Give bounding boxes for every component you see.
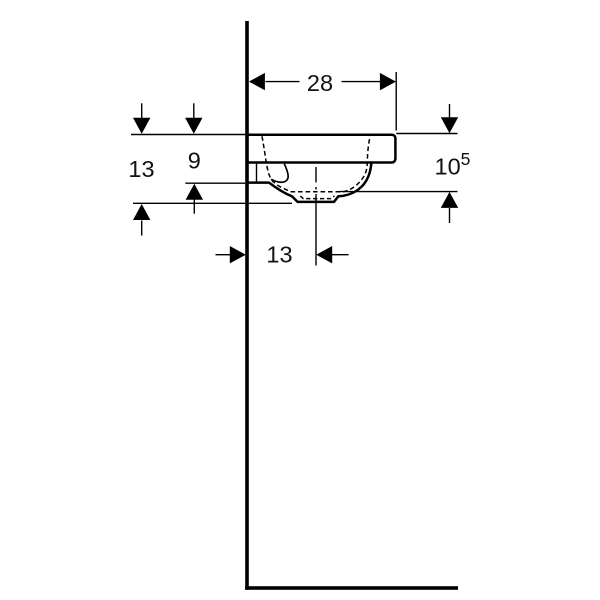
basin rim slab — [247, 135, 395, 163]
svg-text:28: 28 — [307, 70, 333, 96]
dimension 28: right arrow — [380, 73, 396, 90]
dimension 28: line — [266, 81, 381, 83]
hidden drain recess (dashed) — [300, 196, 334, 199]
svg-text:13: 13 — [266, 242, 292, 268]
left middle extension line (9 bottom level) — [185, 182, 245, 184]
dimension 28: extension line right — [395, 72, 397, 131]
wall — [245, 21, 249, 590]
right top extension line — [396, 133, 457, 135]
svg-text:9: 9 — [188, 148, 201, 174]
dim 10.5: top arrow — [449, 104, 451, 118]
dim 13 left: bottom arrow — [141, 221, 143, 236]
left bottom extension line (13 bottom level) — [133, 202, 292, 204]
right bottom extension line — [339, 191, 458, 193]
dim 13 bottom: right arrow — [332, 254, 349, 256]
dim 9: bottom arrow — [193, 200, 195, 214]
dimension 28: left arrow — [249, 73, 265, 90]
dim 9: top arrow — [193, 103, 195, 118]
svg-text:13: 13 — [128, 156, 154, 182]
centerline (dash-dot) — [315, 167, 317, 268]
outer bowl profile — [247, 163, 372, 201]
hidden inner bowl (dashed) — [262, 136, 370, 192]
left top extension line (rim top level) — [131, 134, 245, 136]
dim 13 bottom: left arrow — [216, 254, 231, 256]
dim 13 left: top arrow — [141, 103, 143, 118]
apron edge line — [256, 164, 258, 182]
dim 10.5: bottom arrow — [449, 208, 451, 223]
inner lip hook — [271, 164, 288, 182]
floor — [245, 586, 458, 590]
